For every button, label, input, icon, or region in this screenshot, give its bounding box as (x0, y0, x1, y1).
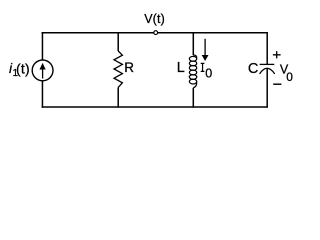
svg-text:C: C (248, 61, 258, 77)
svg-text:R: R (124, 60, 134, 75)
current arrow I0 (202, 39, 209, 61)
wire L branch bottom (192, 88, 194, 108)
wire top right segment (158, 32, 268, 34)
wire R branch top (117, 32, 119, 51)
svg-text:L: L (177, 60, 185, 76)
capacitor C curved plate (260, 68, 275, 74)
svg-text:0: 0 (205, 67, 212, 81)
wire left lower (41, 81, 43, 108)
current source arrow (40, 63, 46, 79)
capacitor C top plate (260, 63, 275, 65)
minus sign (273, 83, 281, 85)
svg-text:(t): (t) (16, 61, 30, 77)
node V(t) terminal circle (154, 31, 158, 35)
label V0 (280, 63, 293, 84)
wire C branch bottom (right wire lower) (266, 68, 268, 107)
inductor L coil (189, 55, 196, 87)
plus sign (273, 51, 281, 58)
current source I1 circle (32, 60, 53, 81)
wire L branch top (192, 32, 194, 55)
resistor R zigzag (114, 51, 122, 87)
wire top left segment (42, 32, 154, 34)
svg-text:0: 0 (286, 70, 293, 84)
label I0 (201, 63, 213, 80)
label i1(t) (9, 60, 30, 79)
wire R branch bottom (117, 87, 119, 107)
wire left upper (41, 32, 43, 60)
wire C branch top (right wire upper) (266, 32, 268, 64)
svg-text:V(t): V(t) (144, 12, 165, 26)
wire bottom (42, 106, 268, 108)
